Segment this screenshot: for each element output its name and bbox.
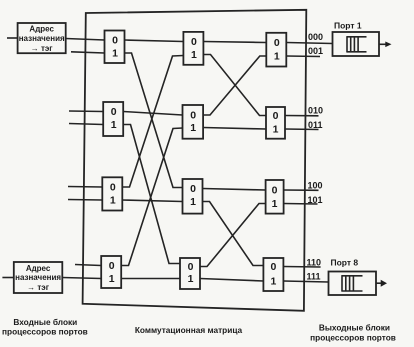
svg-text:→ тэг: → тэг [31,44,54,53]
wire S12.out1 to S24.in0 [123,125,180,264]
svg-text:1: 1 [112,47,118,59]
svg-text:1: 1 [109,273,115,285]
wire input stub S11.in1 [71,52,105,53]
svg-text:0: 0 [110,181,116,193]
port 1 queue icon [347,36,367,52]
matrix boundary rectangle [83,10,307,311]
svg-text:назначения: назначения [19,34,65,43]
svg-text:Выходные блоки: Выходные блоки [319,323,390,333]
address box IN8 text [15,264,61,292]
svg-text:001: 001 [308,46,323,56]
wire S14.out0 to S22.in1 [121,128,182,266]
svg-text:→ тэг: → тэг [27,283,50,292]
svg-text:111: 111 [307,272,321,282]
wire S34.out1 to port 8 [283,281,328,282]
svg-text:0: 0 [190,183,196,195]
wire S21.out0 to S31.in0 [203,42,266,43]
svg-text:процессоров портов: процессоров портов [310,332,396,342]
svg-text:0: 0 [112,34,118,46]
switch S32 [266,107,285,139]
address box IN8 [14,262,63,293]
wire feeder to IN1 [7,37,18,39]
svg-text:011: 011 [308,120,323,130]
svg-text:Адрес: Адрес [29,25,54,34]
switch S14 [101,256,121,288]
switch S24 [180,258,200,289]
switch S34 [263,258,283,291]
port 8 box [329,272,377,296]
switch S12 [103,102,123,136]
wire IN8 to S14.in1 [62,278,101,279]
switch S31 [266,33,286,67]
svg-text:110: 110 [307,257,322,267]
wire input stub S13.in0 [68,186,102,189]
wire S24.out1 to S34.in1 [200,279,263,282]
wire S14.out1 to S24.in1 [121,278,180,280]
wire S23.out0 to S33.in0 [203,189,266,191]
svg-text:1: 1 [274,50,280,62]
wire feeder to IN8 [2,277,13,279]
wire S12.out0 to S22.in0 [123,112,182,116]
wire S13.out0 to S21.in1 [122,56,183,188]
switch S21 [183,32,203,65]
caption: output port processor blocks [310,323,396,343]
wire output 010 [285,115,319,117]
svg-text:1: 1 [111,119,117,131]
svg-text:1: 1 [110,194,116,206]
switch S33 [266,180,284,214]
switch S11 [105,31,125,64]
address box IN1 [18,23,66,53]
svg-text:1: 1 [270,275,276,287]
address box IN1 text [19,25,65,53]
svg-text:процессоров портов: процессоров портов [2,326,88,336]
svg-text:1: 1 [191,49,197,61]
svg-text:1: 1 [273,123,279,135]
wire input stub S13.in1 [68,199,102,202]
svg-text:0: 0 [272,184,278,196]
svg-text:Коммутационная матрица: Коммутационная матрица [135,325,243,335]
wire S21.out1 to S32.in0 [203,55,266,116]
port 8 output arrow [376,280,387,287]
wire output 100 [284,189,319,191]
svg-text:101: 101 [308,195,323,205]
svg-text:0: 0 [188,261,194,273]
svg-text:0: 0 [270,261,276,273]
svg-text:Порт 8: Порт 8 [331,257,359,267]
wire S23.out1 to S34.in0 [203,202,264,266]
svg-text:0: 0 [274,37,280,49]
wire input stub S12.in0 [69,110,103,113]
switch S23 [183,179,203,214]
wire output 001 [286,55,320,58]
wire S24.out0 to S33.in1 [200,204,266,267]
wire output 110 [283,266,320,269]
svg-text:1: 1 [188,273,194,285]
svg-text:0: 0 [190,109,196,121]
svg-text:100: 100 [308,181,323,191]
port 1 output arrow [379,42,392,48]
svg-text:0: 0 [111,106,117,118]
svg-text:0: 0 [273,110,279,122]
svg-text:0: 0 [191,36,197,48]
wire input stub S12.in1 [69,124,103,125]
wire S31.out0 to port 1 [286,43,332,44]
svg-text:1: 1 [190,122,196,134]
port 8 queue icon [342,275,363,291]
svg-text:0: 0 [109,260,115,272]
wire output 011 [285,128,319,131]
wire input stub S14.in0 [75,265,101,266]
svg-text:1: 1 [190,196,196,208]
svg-text:1: 1 [272,198,278,210]
wire S11.out0 to S21.in0 [125,40,184,42]
wire S13.out1 to S23.in1 [122,200,182,202]
svg-text:Порт 1: Порт 1 [334,21,362,31]
svg-text:000: 000 [308,32,323,42]
caption: input port processor blocks [2,317,88,337]
switch S22 [183,105,204,139]
svg-text:Адрес: Адрес [26,264,51,273]
switch S13 [102,177,122,210]
svg-text:назначения: назначения [15,273,61,282]
wire output 101 [284,203,318,206]
wire S22.out1 to S32.in1 [203,128,266,130]
wire S22.out0 to S31.in1 [203,56,266,115]
wire IN1 to S11.in0 [66,39,105,41]
svg-text:Входные блоки: Входные блоки [13,317,77,327]
svg-text:010: 010 [308,105,323,115]
port 1 box [333,32,380,56]
wire S11.out1 to S23.in0 [125,53,183,188]
